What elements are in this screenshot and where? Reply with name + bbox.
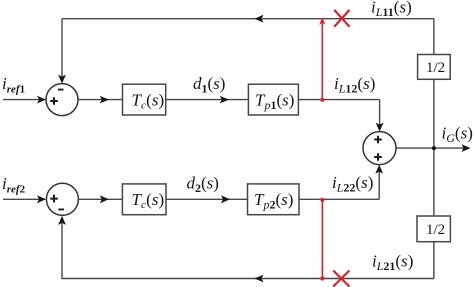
arrow into S2 top (down) bbox=[376, 123, 384, 132]
wire top feedback horizontal bbox=[62, 18, 434, 20]
X cross mark top bbox=[334, 10, 349, 27]
summing junction S2 bbox=[363, 132, 396, 165]
wire elbow up into S2 bottom bbox=[378, 167, 380, 199]
wire right rail node G down to half2 bbox=[433, 148, 435, 216]
arrow bottom feedback (left) bbox=[255, 275, 264, 283]
wire S1 to Tc1 bbox=[78, 99, 123, 101]
svg-text:1/2: 1/2 bbox=[426, 222, 445, 238]
svg-text:d2(s): d2(s) bbox=[187, 174, 219, 196]
wire Tp1 output to elbow bbox=[298, 99, 379, 101]
arrow mid S3 to Tc2 (right) bbox=[100, 195, 109, 203]
arrow output iG (right) bbox=[462, 144, 471, 152]
arrow into S1 from feedback (down) bbox=[58, 75, 66, 84]
arrow into S3 from feedback (up) bbox=[58, 216, 66, 225]
node red junction on Tp2 output bbox=[320, 198, 324, 202]
wire right rail from half1 to node G bbox=[433, 79, 435, 148]
svg-text:d1(s): d1(s) bbox=[193, 74, 225, 96]
svg-text:iG(s): iG(s) bbox=[442, 124, 473, 146]
svg-text:1/2: 1/2 bbox=[426, 60, 445, 76]
wire Tc2 to Tp2 bbox=[166, 198, 248, 200]
wire input i_ref2 bbox=[3, 198, 45, 200]
block Tp1 bbox=[248, 84, 298, 115]
svg-text:Tc(s): Tc(s) bbox=[132, 91, 165, 112]
block half gain bottom 1/2 bbox=[417, 216, 450, 242]
wire input i_ref1 bbox=[3, 99, 45, 101]
arrow input i_ref1 (right) bbox=[37, 96, 46, 104]
wire red decoupling line top bbox=[321, 19, 323, 100]
block half gain top 1/2 bbox=[418, 55, 451, 80]
wire left vertical down to summing junction S1 bbox=[61, 19, 63, 81]
arrow input i_ref2 (right) bbox=[37, 195, 46, 203]
node red junction on Tp1 output bbox=[320, 98, 324, 102]
wire Tp2 output to elbow bbox=[299, 198, 379, 200]
summing junction S3 bbox=[46, 183, 78, 215]
node red junction on bottom feedback bbox=[320, 276, 324, 280]
arrow red top (up) bbox=[319, 17, 325, 25]
summing junction S1 bbox=[46, 84, 78, 116]
block Tc2 bbox=[122, 184, 166, 215]
wire right rail top segment bbox=[433, 19, 435, 55]
arrow mid Tc1 to Tp1 (right) bbox=[220, 96, 229, 104]
arrow mid Tc2 to Tp2 (right) bbox=[221, 195, 230, 203]
arrow into S2 bottom (up) bbox=[375, 165, 383, 174]
wire S2 output to iG bbox=[396, 147, 468, 149]
wire Tc1 to Tp1 bbox=[166, 99, 248, 101]
wire bottom feedback horizontal bbox=[62, 278, 434, 280]
arrow top feedback (left) bbox=[255, 15, 264, 23]
svg-text:Tc(s): Tc(s) bbox=[132, 190, 165, 211]
wire S3 to Tc2 bbox=[78, 198, 122, 200]
wire right rail half2 to bottom line bbox=[433, 242, 435, 279]
X cross mark bottom bbox=[333, 271, 349, 287]
arrow mid S1 to Tc1 (right) bbox=[100, 96, 109, 104]
block Tp2 bbox=[248, 184, 300, 215]
wire left vertical up into S3 bottom bbox=[61, 219, 63, 279]
wire elbow down into S2 top bbox=[379, 100, 381, 129]
node G junction dot bbox=[432, 146, 436, 150]
block Tc1 bbox=[123, 84, 166, 115]
wire red decoupling line bottom bbox=[321, 200, 323, 279]
